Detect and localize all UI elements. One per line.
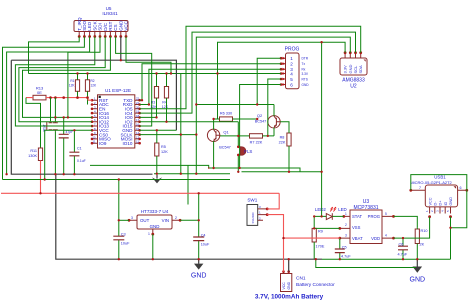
wire USB shell box [411, 175, 467, 228]
wire CN1 GND up to black bus [288, 259, 290, 271]
wire U4 vin line to C4 [180, 219, 199, 221]
wire display CS to ESP IO15 [116, 37, 152, 127]
svg-text:170E: 170E [316, 245, 325, 249]
svg-text:U2: U2 [350, 84, 357, 90]
wire AMG GND to ESP GND row [196, 37, 350, 174]
svg-text:2K: 2K [420, 243, 425, 247]
wire display VCC down to rail [126, 37, 171, 74]
wire U3 VSS line to R9 [314, 227, 340, 229]
svg-text:12K: 12K [161, 150, 168, 154]
wire display SCK to ESP IO13 [15, 37, 94, 127]
resistor R2 [85, 74, 97, 105]
wire Q1 base cross line to Q2 collector [196, 104, 274, 106]
svg-text:3.7V, 1000mAh Battery: 3.7V, 1000mAh Battery [255, 294, 324, 301]
resistor R1 [69, 74, 80, 98]
wire display LED down left to gnd line [7, 37, 90, 175]
wire PROG DTR down [257, 58, 281, 104]
svg-text:C4: C4 [201, 233, 206, 237]
svg-text:VCC: VCC [282, 282, 286, 290]
svg-text:R5: R5 [161, 145, 166, 149]
svg-text:4: 4 [290, 71, 293, 76]
svg-text:2: 2 [175, 216, 177, 220]
header PROG [280, 47, 310, 89]
transistor Q2 BC547 [255, 105, 289, 136]
resistor R13 0E [26, 86, 92, 149]
wire black gnd branch down to bottom bus [56, 174, 322, 259]
sensor U2 AMG8833 [340, 51, 367, 89]
svg-text:SW1: SW1 [247, 198, 257, 203]
svg-text:R10: R10 [421, 229, 428, 233]
svg-text:RTS: RTS [302, 77, 308, 81]
wire display T_IRQ to 3.3V rail corner [29, 37, 80, 74]
svg-text:4.7uF: 4.7uF [398, 252, 408, 256]
svg-text:R9: R9 [318, 230, 323, 234]
pushbutton RST [42, 98, 58, 175]
svg-text:GND: GND [449, 197, 453, 206]
svg-text:GND: GND [410, 277, 426, 284]
svg-text:6: 6 [460, 186, 462, 190]
svg-text:PROG: PROG [368, 214, 380, 219]
wire emitter gnd run lower [242, 171, 322, 173]
svg-text:USB1: USB1 [434, 175, 446, 180]
svg-text:GND: GND [302, 83, 310, 87]
capacitor C6 4.7uF [398, 238, 409, 259]
svg-text:FLS: FLS [244, 149, 252, 154]
wire ESP RXD row [140, 104, 149, 106]
ground right under R10 [410, 259, 426, 283]
wire display SDO down left to 3.3V distribution line [3, 37, 85, 180]
svg-text:PROG: PROG [285, 47, 300, 53]
svg-text:LED2: LED2 [315, 207, 327, 212]
svg-text:Tx: Tx [302, 62, 306, 66]
wire U4 out line [119, 219, 129, 221]
wire display D/C to ESP IO14 [19, 37, 105, 122]
svg-text:R11: R11 [30, 149, 37, 153]
svg-text:6: 6 [290, 82, 293, 87]
svg-text:0.1uF: 0.1uF [77, 159, 86, 163]
wire U4 gnd pin down to black bus [152, 234, 154, 259]
svg-text:IO10: IO10 [123, 141, 133, 146]
svg-text:5: 5 [290, 77, 293, 82]
svg-text:12: 12 [136, 140, 140, 144]
ground under C4 [191, 259, 207, 279]
wire SW1 pin3 up to red rail [267, 193, 279, 209]
svg-text:R8: R8 [280, 136, 285, 140]
LED2 charge led [315, 207, 347, 220]
svg-text:STAT: STAT [352, 214, 363, 219]
wire display SDI to ESP IO12 [68, 37, 100, 118]
wire PROG Tx to ESP TXD [142, 64, 281, 100]
svg-text:Q1: Q1 [223, 130, 229, 135]
wire PROG Rx to ESP RXD [149, 69, 281, 104]
capacitor C2 47pF [59, 117, 74, 173]
wire ESP IO0 row to R3 [140, 116, 157, 118]
svg-text:HT7333-7 U4: HT7333-7 U4 [141, 209, 169, 214]
resistor R4 [162, 74, 169, 122]
connector U5 ILI9341 display header [74, 6, 129, 38]
svg-text:BC547: BC547 [219, 146, 231, 150]
resistor R6 330 [214, 112, 258, 122]
svg-text:GND: GND [150, 224, 160, 229]
svg-text:VSS: VSS [352, 225, 361, 230]
wire 3.3V branch down to LED anode [321, 42, 323, 216]
svg-text:12K: 12K [91, 84, 98, 88]
svg-text:1: 1 [290, 56, 293, 61]
svg-text:OUT: OUT [140, 218, 150, 223]
svg-text:VDD: VDD [371, 236, 380, 241]
wire ESP IO2 row to FLS [140, 121, 239, 123]
resistor R3 [150, 74, 158, 118]
capacitor C4 10uF [193, 220, 210, 259]
wire ESP IO4 to AMG SCL [140, 32, 356, 113]
svg-text:Q2: Q2 [257, 113, 263, 118]
svg-text:12K: 12K [162, 105, 169, 109]
svg-text:SDA: SDA [358, 65, 363, 74]
wire drop from red rail to C4 VIN node [198, 193, 200, 220]
wire PROG GND down to emitter line [240, 85, 281, 169]
svg-text:C6: C6 [399, 242, 404, 246]
svg-text:R1: R1 [70, 79, 74, 83]
wire ESP TXD row [140, 99, 142, 101]
svg-text:22K: 22K [279, 141, 286, 145]
svg-text:SS12D00: SS12D00 [251, 212, 255, 224]
IC U3 MCP73831 charger [338, 199, 395, 244]
wire bottom gnd bus right section [322, 258, 451, 260]
svg-text:R7 22K: R7 22K [250, 141, 263, 145]
svg-text:Battery Connector: Battery Connector [296, 282, 335, 288]
svg-text:U1 ESP-12E: U1 ESP-12E [105, 88, 131, 93]
wire AMG 3.3V to rail and R6 [218, 42, 346, 119]
svg-text:3: 3 [131, 216, 133, 220]
switch SW1 [247, 198, 269, 226]
svg-text:10uF: 10uF [121, 242, 130, 246]
wire battery plus red rail [1, 192, 279, 194]
svg-text:GND: GND [191, 273, 207, 280]
svg-text:IO9: IO9 [99, 141, 107, 146]
capacitor C1 0.1uF [69, 130, 85, 173]
svg-text:1: 1 [148, 232, 150, 236]
svg-text:2: 2 [345, 223, 347, 227]
svg-text:130K: 130K [28, 154, 37, 158]
wire 3.3V distribution bottom line [3, 180, 231, 221]
wire ESP SCLK row [140, 134, 197, 136]
svg-text:0E: 0E [37, 90, 42, 95]
buzzer FLS [237, 122, 252, 172]
ground main arrow [152, 175, 162, 184]
wire VBAT red rail to U3 [284, 237, 340, 239]
connector CN1 battery [281, 270, 336, 291]
svg-text:GND: GND [287, 281, 291, 289]
wire SW1 pin1 down to CN1 VCC [267, 215, 283, 272]
svg-text:5: 5 [385, 212, 387, 216]
wire display RST to ESP IO16 [23, 37, 111, 118]
svg-text:C3: C3 [121, 233, 126, 237]
svg-text:10uF: 10uF [201, 242, 210, 246]
wire ESP IO5 to AMG SDA [140, 26, 361, 109]
svg-text:DTR: DTR [302, 57, 309, 61]
svg-text:MCP73831: MCP73831 [353, 205, 378, 211]
svg-text:MICRO-05-G2P1-A2T2: MICRO-05-G2P1-A2T2 [410, 180, 452, 185]
svg-text:R6 330: R6 330 [220, 112, 232, 116]
svg-text:11: 11 [93, 140, 96, 144]
wire Q1 emitter run upper [209, 168, 300, 172]
svg-text:CN1: CN1 [296, 276, 306, 282]
svg-text:3: 3 [345, 234, 347, 238]
resistor R8 22K [279, 133, 291, 172]
resistor R7 22K [220, 134, 274, 145]
svg-text:7: 7 [419, 186, 421, 190]
svg-text:C1: C1 [77, 147, 82, 151]
svg-text:4: 4 [385, 234, 387, 238]
wire U3 PROG to R10 [394, 216, 418, 227]
wire ESP IO15 row to R5 [140, 129, 177, 131]
svg-text:VBAT: VBAT [352, 236, 363, 241]
wire lower mid line [90, 165, 209, 204]
capacitor C3 10uF [113, 220, 130, 259]
svg-text:2: 2 [290, 61, 293, 66]
svg-text:VCC: VCC [428, 197, 432, 205]
wire PROG RTS down to R7 line [268, 79, 281, 136]
svg-text:R2: R2 [91, 79, 95, 83]
wire ESP VCC row to 3.3V line [45, 130, 92, 179]
module U1 ESP-12E [91, 88, 141, 148]
svg-text:VCC: VCC [124, 20, 129, 30]
wire LED row to U3 STAT [314, 215, 344, 217]
svg-text:12K: 12K [69, 84, 76, 88]
resistor R9 170E [312, 216, 325, 259]
resistor R10 2K [415, 228, 427, 259]
wire 3.3V rail [29, 73, 282, 75]
wire gnd line under ESP [154, 173, 230, 175]
resistor R11 130K [28, 148, 42, 193]
svg-text:LED: LED [338, 207, 347, 212]
capacitor C5 4.7uF [335, 238, 352, 259]
svg-text:4.7uF: 4.7uF [341, 255, 351, 259]
svg-text:BC547: BC547 [255, 120, 267, 124]
svg-text:1: 1 [345, 212, 347, 216]
transistor Q1 BC547 [207, 119, 230, 168]
wire display GND black net to bottom gnd bus [11, 37, 176, 175]
wire rail drop to lower line [180, 74, 182, 174]
wire gnd hop right section [316, 259, 416, 267]
svg-text:ILI9341: ILI9341 [102, 11, 118, 16]
svg-text:D+: D+ [439, 200, 443, 206]
svg-text:ID: ID [444, 201, 448, 205]
resistor R5 [155, 130, 169, 173]
wire USB gnd pin down to bottom bus [450, 217, 452, 260]
svg-text:C5: C5 [342, 246, 347, 250]
regulator U4 HT7333-7 [128, 209, 182, 236]
svg-text:VIN: VIN [162, 218, 169, 223]
wire U3 VDD to USB VCC [394, 217, 430, 238]
connector USB1 micro usb [409, 175, 468, 219]
svg-text:3.3V: 3.3V [302, 72, 309, 76]
